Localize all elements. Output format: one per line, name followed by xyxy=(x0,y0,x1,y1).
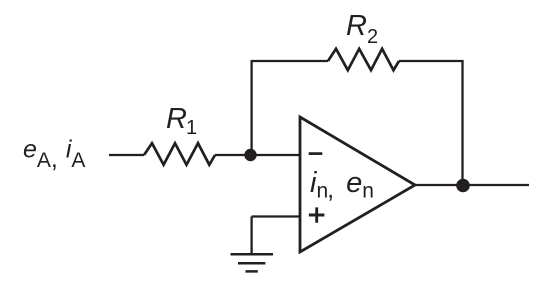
wire ground lead xyxy=(250,217,252,255)
node A (inverting input junction) xyxy=(244,149,256,161)
op-amp U1 xyxy=(300,117,415,252)
svg-text:R2: R2 xyxy=(346,10,378,48)
resistor R1 xyxy=(144,143,215,165)
svg-text:R1: R1 xyxy=(166,103,197,139)
ground xyxy=(231,254,274,271)
svg-text:in, en: in, en xyxy=(310,167,374,204)
wire output xyxy=(415,184,529,186)
node B (output junction) xyxy=(456,179,470,193)
wire noninverting input xyxy=(252,215,300,217)
wire feedback top right xyxy=(399,60,464,62)
wire feedback left vertical xyxy=(250,61,252,155)
wire input lead xyxy=(109,154,144,156)
wire feedback right vertical xyxy=(461,61,463,186)
wire R1 to inverting input xyxy=(215,154,300,156)
op-amp minus pin xyxy=(309,152,323,155)
resistor R2 xyxy=(328,49,399,70)
op-amp plus pin xyxy=(309,207,325,222)
wire feedback top left xyxy=(251,60,329,62)
svg-text:eA, iA: eA, iA xyxy=(23,136,85,174)
